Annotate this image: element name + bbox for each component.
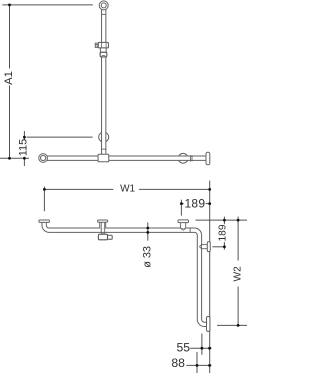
svg-text:ø 33: ø 33	[141, 246, 153, 268]
left wall rosette of bar (front view)	[39, 154, 48, 163]
svg-text:115: 115	[17, 139, 29, 157]
dimension 115 (vertical)	[24, 131, 92, 166]
tick joint on rail above cross	[101, 148, 106, 150]
dimension W2 (vertical, right)	[217, 217, 247, 326]
dimension W1 (horizontal)	[44, 187, 209, 212]
svg-text:W2: W2	[233, 266, 244, 282]
svg-text:55: 55	[177, 340, 191, 354]
right wall flange of bar (front view, edge-on)	[206, 152, 210, 165]
dimension 189 (horizontal, corner bracket to wall)	[181, 200, 209, 216]
bottom wall flange of vertical leg	[207, 317, 210, 332]
svg-text:W1: W1	[120, 184, 135, 195]
wire: wall reference line (right wall plane)	[209, 181, 211, 373]
dimension 55 (bottom)	[190, 334, 211, 355]
top ring mount of shower rail	[99, 1, 108, 15]
collar joint near right end of bar (front view)	[190, 155, 192, 161]
extension line along top wall plane (lower view)	[196, 219, 248, 221]
dimension ø33 (bar diameter, top view)	[147, 222, 149, 240]
wire: horizontal grab bar (front view)	[45, 156, 206, 161]
svg-text:189: 189	[184, 197, 205, 211]
dimension A1 (vertical, left)	[0, 5, 93, 159]
wire: vertical shower rail (front view)	[101, 7, 106, 154]
support ring on horizontal bar (front view)	[178, 153, 188, 163]
joint tick on bar near corner (top view)	[189, 227, 191, 233]
corner wall bracket (top view)	[178, 220, 189, 230]
right wall bracket on vertical leg	[199, 242, 210, 252]
shower holder (top view)	[98, 220, 113, 240]
svg-text:88: 88	[171, 356, 185, 370]
dimension 189 (vertical, wall to side bracket)	[212, 217, 225, 250]
svg-text:A1: A1	[3, 71, 15, 85]
svg-text:189: 189	[217, 224, 228, 241]
cross fitting square (rail meets bar)	[98, 154, 109, 162]
shower head holder (front view)	[95, 42, 108, 56]
dimension 88 (bottom)	[186, 352, 211, 373]
slider ring on vertical rail (front view)	[99, 132, 109, 142]
wire: L-shaped grab bar (top view) with corner and bottom elbow	[44, 222, 208, 325]
left wall flange plate (top view)	[39, 220, 50, 222]
